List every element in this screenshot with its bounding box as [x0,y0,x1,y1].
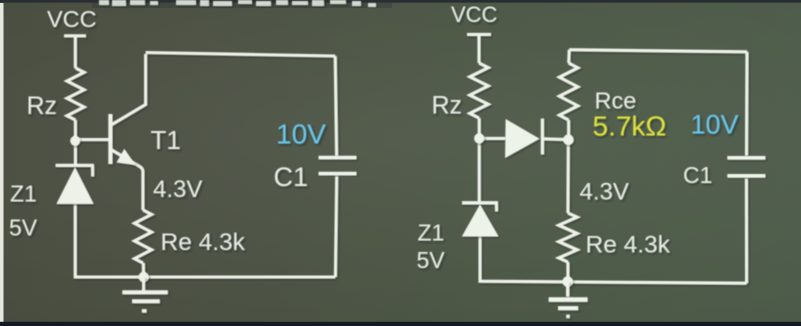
C1 branch lower wire (left) [335,175,336,277]
C1 branch upper wire (right) [745,52,749,156]
svg-text:Rz: Rz [27,92,58,120]
T1 emitter arrowhead [117,149,136,165]
wire VCC stem to Rz top [74,36,77,68]
C1 branch upper wire (left) [335,56,336,156]
svg-text:10V: 10V [691,110,739,140]
left edge white sliver [0,3,4,322]
zener Z1 (right) anode triangle [462,204,499,236]
node C junction dot (diode/Rce/Re) [563,134,574,145]
svg-text:10V: 10V [276,119,326,150]
wire node B to diode anode [479,137,505,140]
resistor Re (right) [559,213,578,262]
wire Rz bottom to node A [74,120,77,164]
transistor T1 base bar [108,114,112,164]
capacitor C1 (right) plates [727,158,765,176]
zener Z1 (right) cathode bent tip [495,203,498,212]
left top rail from collector to C1 branch [146,53,336,57]
node B junction dot (Rz/diode/Z1) [474,133,484,143]
wire top rail corner down to Rce [567,50,571,63]
svg-text:Z1: Z1 [418,220,445,246]
svg-text:T1: T1 [151,125,181,155]
wire Re bottom to ground node [142,263,145,277]
diode D cathode bar [541,119,544,155]
wire node C down to Re (right) [566,140,569,213]
top edge dark band [0,0,801,3]
svg-text:5.7kΩ: 5.7kΩ [593,111,667,142]
svg-text:VCC: VCC [47,6,97,32]
VCC rail T-bar (left) [64,34,86,37]
zener Z1 (left) anode triangle [56,167,93,204]
right ground node dot [562,276,573,287]
wire Rz bottom through node B to zener Z1 [478,118,481,202]
svg-text:C1: C1 [274,162,309,192]
transistor T1 emitter [111,150,143,211]
svg-text:5V: 5V [417,247,446,273]
bottom dark bar [0,322,801,326]
zener Z1 (left) cathode bent tip [91,165,94,176]
ground symbol (right) [549,282,588,317]
wire Z1 (right) anode down, corner, bottom rail to C1 [480,236,747,283]
svg-text:Rz: Rz [432,92,463,120]
diode D anode triangle [505,119,539,158]
C1 branch lower wire (right) [745,178,748,283]
wire Rce bottom to node C [567,120,570,140]
wire Z1 anode to bottom rail, corner, bottom rail to C1 [75,204,335,277]
ground symbol (left) [122,277,168,311]
transistor T1 collector [111,54,146,125]
svg-text:Z1: Z1 [10,181,37,207]
resistor Rz (right) [470,63,489,118]
svg-text:Re 4.3k: Re 4.3k [161,229,246,256]
resistor Re (left) [134,210,151,263]
wire VCC stem to Rz top (right) [477,34,480,63]
svg-text:VCC: VCC [451,2,498,27]
zener Z1 (right) cathode bar [462,201,498,204]
svg-text:4.3V: 4.3V [153,176,202,203]
svg-text:C1: C1 [683,162,712,188]
resistor Rz (left) [67,68,84,120]
VCC rail T-bar (right) [467,33,491,36]
zener Z1 (left) cathode bar [56,164,95,167]
svg-text:Re 4.3k: Re 4.3k [586,232,671,259]
cropped title text fragments along top [99,0,376,7]
svg-text:5V: 5V [9,215,38,241]
resistor Rce [559,63,578,120]
svg-text:4.3V: 4.3V [580,179,629,206]
left ground node dot [138,272,148,282]
capacitor C1 (left) plates [319,158,357,174]
wire diode cathode to node C [542,137,568,141]
node A junction dot (Rz/Z1/base) [70,136,80,146]
wire node A to T1 base [75,138,108,141]
right top rail [569,50,747,52]
wire Re bottom to right ground node [566,262,569,282]
